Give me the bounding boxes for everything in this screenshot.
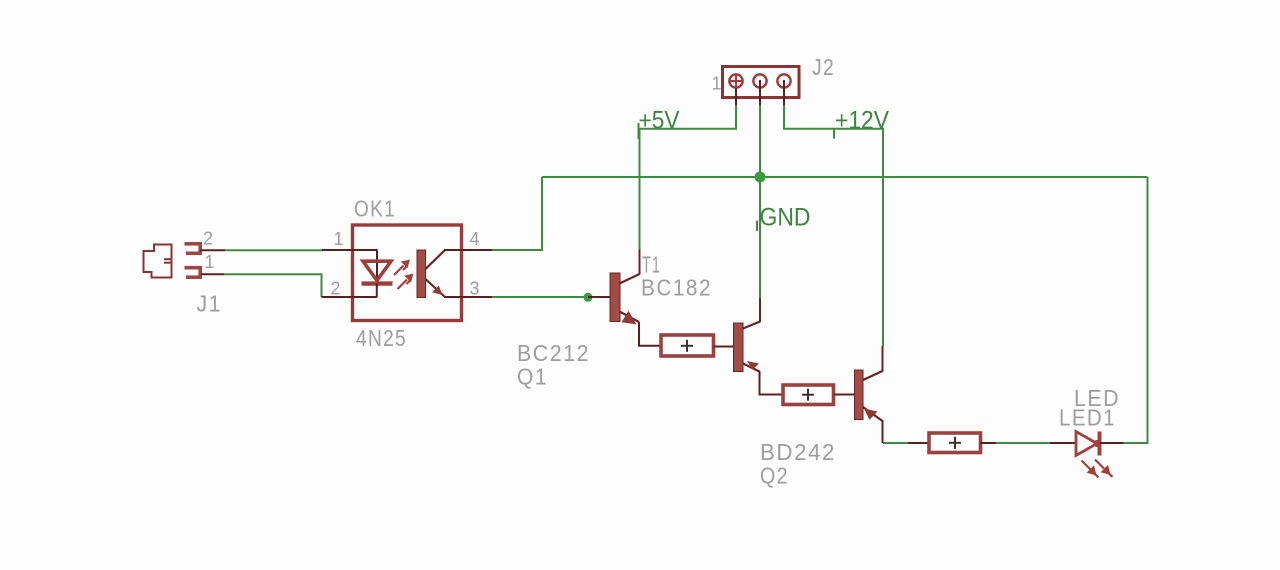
OK1 light arrow upper (394, 260, 410, 276)
svg-text:J2: J2 (812, 54, 835, 80)
OK1 internal cathode drop (376, 283, 378, 297)
svg-text:1: 1 (712, 74, 722, 94)
svg-text:+12V: +12V (835, 107, 889, 135)
transistor T1 base pin (588, 296, 610, 298)
wire OK1.3 to T1 base (492, 296, 588, 298)
OK1 phototransistor emitter diagonal (426, 279, 446, 297)
LED1 light arrow left (1082, 461, 1099, 478)
node junction on GND bus (755, 172, 766, 183)
pin line OK1.3 (444, 296, 492, 298)
wire T1 emitter to R1 (639, 322, 661, 346)
OK1 emitter arrowhead (432, 286, 443, 295)
OK1 internal anode drop (376, 250, 378, 282)
pin line J1.2 (200, 249, 225, 251)
resistor R2 (783, 385, 834, 405)
svg-text:Q1: Q1 (517, 364, 548, 390)
net label +5V (639, 107, 680, 140)
svg-text:4N25: 4N25 (356, 325, 407, 351)
transistor Q2 bar (855, 370, 864, 420)
svg-text:Q2: Q2 (760, 463, 789, 489)
pin line J1.1 (201, 273, 224, 275)
net label GND (757, 204, 811, 232)
transistor T1 bar (610, 273, 620, 322)
svg-text:1: 1 (334, 229, 344, 249)
pin line OK1.4 (444, 249, 492, 251)
svg-text:3: 3 (470, 279, 480, 299)
connector J2 pin 2 circle (753, 74, 766, 87)
wire LED return right side (1124, 177, 1148, 443)
transistor Q1 emitter (743, 361, 760, 372)
OK1 phototransistor bar (417, 250, 426, 298)
svg-text:4: 4 (470, 229, 480, 249)
transistor Q1 bar (734, 323, 744, 372)
OK1 light arrow lower (398, 274, 414, 290)
net label +12V (834, 107, 889, 139)
svg-text:2: 2 (331, 279, 341, 299)
node junction on T1 base wire (584, 293, 593, 302)
OK1 phototransistor collector diagonal (426, 250, 446, 269)
connector J1 pin 1 contact (185, 266, 203, 277)
wire GND bus horizontal (542, 176, 1148, 178)
wire Q2 emitter down (882, 421, 884, 444)
diode LED1 cathode bar (1098, 432, 1102, 456)
LED1 cathode pin (1100, 442, 1124, 444)
svg-text:BC212: BC212 (517, 340, 590, 366)
svg-text:GND: GND (760, 204, 811, 232)
connector J2 pin 1 circle (729, 74, 744, 89)
OK1 internal LED diode (362, 261, 393, 283)
svg-text:+5V: +5V (639, 107, 680, 135)
resistor R1 (661, 335, 714, 356)
wire Q1 emitter to R2 (760, 371, 784, 395)
pin line OK1.1 (322, 249, 378, 251)
diode LED1 junction blob (1094, 440, 1101, 447)
svg-text:1: 1 (205, 252, 215, 272)
wire +12V net (784, 104, 883, 346)
wire R2 to Q2 base (834, 394, 855, 396)
connector J1 pin 2 contact (185, 242, 203, 253)
wire Q2 emitter to R3 (883, 442, 908, 444)
wire J1.2 to OK1.1 (225, 249, 323, 251)
LED1 light arrow right (1095, 460, 1113, 478)
transistor Q1 collector (743, 298, 760, 329)
connector J2 box (723, 67, 800, 98)
connector J2 pin 3 circle (777, 74, 790, 87)
wire R1 to Q1 base (714, 346, 734, 348)
diode LED1 triangle (1076, 432, 1097, 456)
resistor R3 (929, 433, 981, 453)
transistor Q2 emitter (863, 407, 883, 421)
svg-text:2: 2 (203, 229, 213, 249)
wire R3 to LED1 (996, 442, 1050, 444)
resistor R3 left pin (908, 442, 929, 444)
optocoupler OK1 box (353, 225, 462, 321)
connector J1 housing (144, 245, 172, 278)
transistor Q2 collector (863, 346, 883, 380)
LED1 anode pin (1050, 442, 1076, 444)
svg-text:BD242: BD242 (760, 439, 836, 465)
svg-text:BC182: BC182 (641, 275, 712, 301)
svg-text:J1: J1 (197, 291, 223, 317)
resistor R3 right pin (981, 442, 997, 444)
transistor T1 collector (620, 250, 640, 284)
wire OK1.4 up to GND bus (492, 177, 542, 250)
transistor T1 emitter (620, 311, 640, 325)
J2 pin stubs (736, 80, 784, 105)
svg-text:OK1: OK1 (354, 196, 396, 222)
pin line OK1.2 (322, 296, 378, 298)
wire J1.1 to OK1.2 (224, 274, 322, 297)
wire +5V net (640, 104, 737, 250)
svg-text:LED1: LED1 (1059, 405, 1116, 431)
wire GND drop from J2 pin2 (759, 104, 761, 298)
